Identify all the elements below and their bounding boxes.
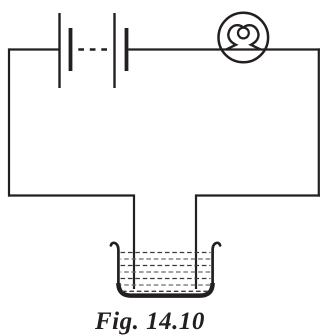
battery B1 plate long left (+) xyxy=(58,13,60,88)
lamp L1 filament loop xyxy=(238,28,249,39)
caption Fig. 14.10 xyxy=(95,308,205,336)
wire right side xyxy=(318,48,320,196)
beaker body xyxy=(111,243,220,295)
battery B1 plate short right (-) xyxy=(125,28,129,71)
wire left side xyxy=(8,48,10,196)
wire left electrode (into beaker) xyxy=(133,195,135,290)
battery B1 plate short left (-) xyxy=(69,28,73,71)
wire bottom-right segment xyxy=(195,194,320,196)
beaker thick bottom xyxy=(118,283,212,296)
liquid dashed row 3 xyxy=(121,265,211,267)
liquid dashed row 1 (surface) xyxy=(121,252,211,254)
wire top-left segment (left corner to battery) xyxy=(9,48,60,50)
lamp L1 envelope circle xyxy=(219,13,269,63)
liquid dashed row 2 xyxy=(121,258,211,260)
liquid dashed row 5 xyxy=(121,278,211,280)
lamp L1 bulb glass outline left xyxy=(226,25,243,49)
wire bottom-left segment xyxy=(8,194,135,196)
liquid dashed row 4 xyxy=(121,271,211,273)
liquid dashed row 7 xyxy=(122,290,209,292)
lamp L1 bulb glass outline right xyxy=(243,25,260,49)
wire right electrode (into beaker) xyxy=(195,195,197,290)
liquid dashed row 6 xyxy=(121,284,211,286)
wire battery to top-right corner (passes under bulb) xyxy=(128,48,320,50)
battery B1 plate long right (+) xyxy=(113,13,115,88)
battery B1 dashed link (more cells) xyxy=(78,48,107,50)
